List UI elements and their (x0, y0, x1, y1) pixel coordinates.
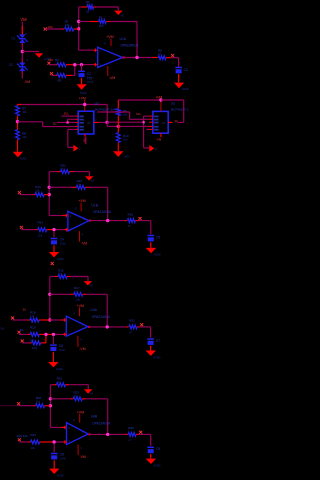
svg-text:R21: R21 (129, 319, 135, 323)
svg-text:2U: 2U (23, 307, 27, 311)
svg-text:AGND: AGND (182, 88, 189, 91)
svg-text:10k: 10k (99, 24, 104, 28)
svg-text:R0: R0 (20, 328, 24, 332)
svg-text:D: D (155, 148, 157, 151)
svg-text:-VM: -VM (109, 76, 115, 80)
svg-text:U1A: U1A (120, 37, 127, 41)
svg-text:1k: 1k (86, 10, 90, 14)
svg-text:-VM: -VM (80, 455, 86, 459)
svg-text:2372: 2372 (87, 80, 94, 84)
svg-text:10k: 10k (65, 23, 70, 27)
svg-text:R26: R26 (128, 426, 134, 430)
svg-text:AGND: AGND (56, 368, 63, 371)
svg-text:10k: 10k (123, 138, 128, 142)
svg-text:MCP4018T-104: MCP4018T-104 (95, 108, 116, 112)
svg-text:U1B: U1B (91, 203, 98, 207)
svg-text:AGND: AGND (154, 254, 161, 257)
svg-text:AGND: AGND (80, 92, 87, 95)
svg-text:D: D (79, 148, 81, 151)
svg-text:OPA2340UA: OPA2340UA (92, 421, 111, 425)
svg-text:10k: 10k (74, 394, 79, 398)
svg-text:AG: AG (89, 284, 93, 287)
svg-text:-VM: -VM (83, 137, 87, 143)
svg-text:-VM: -VM (81, 242, 87, 246)
svg-text:VM: VM (20, 17, 27, 22)
svg-text:AGND: AGND (57, 258, 64, 261)
svg-text:H: H (25, 32, 27, 36)
svg-text:OPA2340UA: OPA2340UA (121, 44, 140, 48)
svg-text:AGND: AGND (57, 474, 64, 477)
svg-text:10k: 10k (77, 182, 82, 186)
svg-text:100n: 100n (59, 348, 66, 352)
svg-text:MCP4018T-1: MCP4018T-1 (171, 108, 189, 112)
svg-text:R3: R3 (99, 16, 103, 20)
svg-text:R24 10k: R24 10k (17, 434, 29, 438)
svg-text:AGN: AGN (124, 155, 129, 158)
svg-text:+VM: +VM (106, 35, 114, 39)
svg-text:U4A: U4A (90, 308, 97, 312)
svg-text:-VM: -VM (24, 80, 30, 84)
svg-text:U4B: U4B (91, 415, 98, 419)
svg-text:R19: R19 (32, 346, 38, 350)
svg-text:10k: 10k (35, 189, 40, 193)
svg-text:47: 47 (158, 52, 162, 56)
svg-text:SCL: SCL (64, 112, 70, 116)
svg-text:10k: 10k (38, 233, 43, 237)
svg-text:W: W (87, 121, 90, 125)
svg-text:10k: 10k (30, 314, 35, 318)
svg-text:U3: U3 (171, 102, 175, 106)
svg-text:R14: R14 (38, 221, 44, 225)
svg-text:AG: AG (91, 179, 95, 182)
svg-text:C9: C9 (156, 447, 160, 451)
svg-text:AG: AG (121, 14, 125, 17)
svg-text:OPA2340UA: OPA2340UA (93, 210, 112, 214)
svg-text:R4: R4 (55, 58, 59, 62)
svg-text:C5: C5 (156, 235, 160, 239)
svg-text:D1: D1 (12, 37, 16, 41)
svg-text:10k: 10k (76, 298, 81, 302)
svg-text:C3: C3 (184, 68, 188, 72)
svg-text:GN: GN (1, 326, 5, 330)
svg-text:47: 47 (129, 331, 133, 335)
svg-text:100n: 100n (60, 241, 67, 245)
svg-text:10k: 10k (123, 112, 128, 116)
svg-text:W: W (175, 119, 178, 123)
svg-text:R2: R2 (86, 0, 90, 4)
svg-text:R20: R20 (30, 325, 36, 329)
svg-text:H: H (26, 58, 28, 62)
svg-text:V: V (95, 118, 97, 122)
svg-text:U2: U2 (95, 102, 99, 106)
svg-text:OPA2340UA: OPA2340UA (92, 315, 111, 319)
svg-text:-VM: -VM (79, 347, 85, 351)
svg-text:10k: 10k (22, 110, 27, 114)
svg-text:SCL: SCL (136, 112, 142, 116)
svg-text:47: 47 (128, 224, 132, 228)
svg-text:10k: 10k (22, 135, 27, 139)
svg-text:AGND: AGND (153, 356, 160, 359)
svg-text:R15: R15 (128, 212, 134, 216)
svg-text:100: 100 (48, 58, 53, 62)
svg-text:SD: SD (53, 121, 57, 125)
svg-text:+VM: +VM (77, 410, 85, 414)
svg-text:+VM: +VM (77, 304, 85, 308)
svg-text:AGND: AGND (20, 157, 27, 160)
svg-text:R5: R5 (58, 78, 62, 82)
svg-text:D2: D2 (9, 63, 13, 67)
svg-text:W: W (162, 121, 165, 125)
svg-text:47: 47 (128, 438, 132, 442)
svg-text:-VM: -VM (156, 138, 162, 142)
svg-text:R24: R24 (31, 433, 37, 437)
svg-text:10k: 10k (74, 289, 79, 293)
svg-text:10k: 10k (36, 400, 41, 404)
svg-text:AGND: AGND (154, 464, 161, 467)
svg-text:C7: C7 (156, 339, 160, 343)
svg-text:10k: 10k (31, 446, 36, 450)
svg-text:AG: AG (90, 393, 94, 396)
svg-text:100n: 100n (60, 456, 67, 460)
svg-text:+VM: +VM (78, 199, 86, 203)
